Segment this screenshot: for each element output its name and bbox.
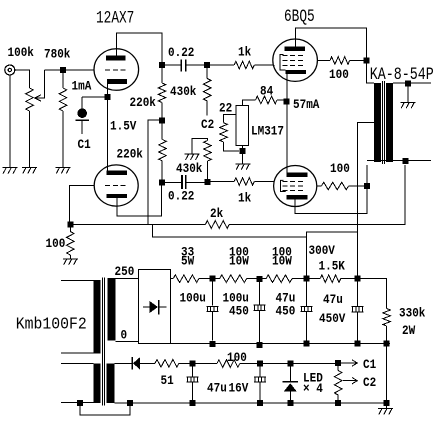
wire jog to 300V box [153,225,307,238]
node divider mid [159,118,165,124]
V1b grid lead [70,185,95,221]
resistor 33 5W [170,275,209,283]
V1a plate bar [106,55,126,60]
node J1 filter [210,276,216,282]
capacitor 0.22 top [165,60,204,72]
svg-text:84: 84 [260,84,273,99]
svg-text:LM317: LM317 [251,124,284,139]
triode V1a 12AX7 upper: envelope [94,49,139,91]
ground (780k) [56,168,71,174]
transformer T2 primary bar upper [94,280,101,353]
svg-text:450: 450 [229,304,249,319]
capacitor 47u 450V [352,282,364,341]
node bottom 0.22 left [159,179,165,185]
feedback wire with 2k to output [73,224,205,226]
V2 grid lead [273,65,274,67]
svg-text:100k: 100k [8,45,34,60]
capacitor 100u 450 [254,282,266,342]
resistor 2k [205,221,229,229]
svg-text:100: 100 [46,236,66,251]
svg-text:450V: 450V [319,311,346,326]
T2 bias winding top lead [115,362,133,364]
node feedback/grid junction [67,222,73,228]
ground (430k lower) [185,154,200,160]
resistor 100 (V3 screen) [317,182,364,190]
svg-text:430k: 430k [176,161,202,176]
node 780k top [60,67,66,73]
LM317 bottom lead [241,146,243,164]
node T2 bottom left [77,400,83,406]
T1 secondary winding bar [386,83,393,162]
resistor 84 [242,96,283,105]
resistor 220k upper [158,68,166,118]
node rail 5 [384,341,390,347]
svg-text:100: 100 [329,67,349,82]
resistor 51 [155,360,179,368]
svg-text:0.22: 0.22 [168,189,194,204]
svg-text:C1: C1 [78,137,91,152]
node top 0.22 left [159,62,165,68]
resistor 100 (V2 screen) [317,57,363,65]
node cathode/C1 junction [105,94,111,100]
resistor 1.5K [309,275,354,283]
T2 core lines [103,278,105,406]
resistor 780k [59,73,67,167]
node D bias out [335,360,341,366]
svg-text:47u: 47u [323,292,343,307]
svg-text:430k: 430k [170,84,196,99]
node T2 bottom right [127,400,133,406]
svg-text:C2: C2 [201,117,214,132]
node bottom 0.22 right [205,179,211,185]
V1a cathode bar [107,79,127,84]
svg-text:780k: 780k [44,47,70,62]
svg-text:100: 100 [330,161,350,176]
node B+ top [364,57,370,63]
svg-text:10W: 10W [229,254,249,269]
node transformer bottom [402,158,408,164]
node A bottom [189,400,195,406]
resistor 220k lower [159,124,167,180]
capacitor 0.22 bottom [165,175,205,189]
svg-text:220k: 220k [130,95,156,110]
wire 330k junction down to gnd rail [386,347,388,400]
capacitor 47u 16V [187,367,199,401]
node bottom gnd [384,400,390,406]
ground (jack) [2,75,17,174]
T2 secondary bar upper [108,278,116,341]
T1 primary top lead [367,63,375,83]
svg-text:47u: 47u [207,381,227,396]
LED string [282,366,298,400]
input jack J1 [5,65,15,75]
ground (secondary) [400,87,415,109]
svg-text:300V: 300V [309,243,336,258]
T2 heater lead top [61,363,94,365]
resistor 22 [220,115,239,152]
regulator U1 LM317 box [236,106,249,146]
V1a plate lead to top rail [116,33,162,62]
V3 bracket [281,180,286,191]
V3 cathode lead [295,165,367,213]
svg-text:250: 250 [115,264,135,279]
node rail 2 [257,342,263,348]
node C bias (LED) [288,360,294,366]
SRPP wire: V1a cathode to V1b plate [107,100,109,171]
resistor 430k lower (to gnd) [192,139,211,180]
V1a cathode lead [107,84,109,94]
svg-text:1.5V: 1.5V [110,119,137,134]
V1b cathode bar [107,194,128,198]
T1 core lines [383,81,385,164]
resistor 330k 2W [361,279,391,341]
svg-text:51: 51 [161,373,174,388]
svg-text:0: 0 [121,328,128,343]
wire wiper to grid [45,69,94,71]
T2 250V tap [116,278,139,280]
svg-text:12AX7: 12AX7 [96,8,134,29]
V2 cathode bar [286,70,306,74]
node LM317 bottom [239,148,245,154]
svg-text:1mA: 1mA [72,79,92,94]
resistor 1k bottom [211,178,275,186]
svg-text:5W: 5W [181,254,195,269]
node pot bottom [335,400,341,406]
resistor 100 10W #2 [263,275,304,283]
node LED bottom [288,400,294,406]
V1b cathode lead wire [117,186,162,217]
capacitor C6 bias [254,367,266,401]
svg-text:220k: 220k [117,147,143,162]
svg-text:1k: 1k [238,45,251,60]
node J4 (300V) [355,276,361,282]
node A bias [189,361,195,367]
V2 plate lead to B+ [296,28,367,58]
rectifier diode [143,300,167,315]
resistor 100 (V1b cathode bias gnd) [67,228,75,259]
T1 secondary top lead [393,82,431,84]
triode V1b 12AX7 lower: envelope [94,165,138,206]
wire junction to C1 terminal [82,96,105,98]
terminal C1 (net C1) [76,97,89,134]
T2 primary bar lower [94,363,101,403]
svg-text:330k: 330k [399,306,425,321]
svg-text:57mA: 57mA [293,97,320,112]
wire jack to pot top [15,70,30,88]
node B bias [257,361,263,367]
arrow to C1 [341,360,357,366]
bias bottom rail [133,402,384,404]
ground (100) [63,259,78,265]
svg-text:2W: 2W [402,323,416,338]
rectifier box [139,269,171,343]
V2 grid rows (g3,g2,g1) [283,56,304,66]
svg-text:22: 22 [219,101,232,116]
node output 57mA [284,99,290,105]
T2 bias winding bottom lead [115,402,188,404]
T1 primary mid tap lead [358,122,375,278]
pot wiper arrow [35,70,45,101]
node B+ / screen V3 [364,183,370,189]
node J2 filter [257,276,263,282]
svg-text:KA-8-54P: KA-8-54P [370,64,434,84]
V2 cathode lead to output node [286,74,288,173]
pentode V3 6BQ5 lower: envelope [274,166,317,207]
wire C to D [294,362,335,364]
V3 cathode bar [286,195,307,200]
T2 0V tap [115,341,138,343]
resistor 430k upper (to C2 net) [203,68,211,115]
wire mid tap to feedback line [148,120,159,225]
node J3 filter [303,276,309,282]
pentode V2 6BQ5 upper: envelope [273,39,318,81]
svg-text:× 4: × 4 [303,381,323,396]
wire mid-tap branch to J3 [306,232,357,276]
V2 plate bar [285,47,305,52]
capacitor 47u 450 [300,282,312,341]
svg-text:10W: 10W [272,254,292,269]
V1b grid dashes [105,184,127,186]
ground (pot) [22,168,37,174]
node rail 1 [210,341,216,347]
svg-text:100u: 100u [180,291,206,306]
svg-text:450: 450 [276,304,296,319]
potentiometer 100k [26,88,34,167]
svg-text:C1: C1 [363,357,376,372]
arrow to C2 [343,378,357,384]
capacitor 100u #1 [206,282,218,341]
resistor 100 (bias adj) [195,360,257,368]
svg-text:0.22: 0.22 [168,45,194,60]
node secondary gnd [405,81,411,87]
resistor 1k top [210,61,273,69]
node top 0.22 right [204,62,210,68]
T2 heater lead bottom [61,402,94,404]
svg-text:Kmb100F2: Kmb100F2 [16,315,87,334]
T1 bottom lead [367,160,431,162]
svg-text:1.5K: 1.5K [319,259,346,274]
svg-text:C2: C2 [363,375,376,390]
node rail 4 [355,341,361,347]
V3 grid rows [283,181,304,190]
V2 suppressor-cathode bracket [280,55,286,71]
V1b plate bar [107,171,128,175]
svg-text:1k: 1k [238,191,251,206]
ground (main PSU) [378,406,393,415]
transformer T1 primary winding bar [374,83,381,162]
wire 51 to node A [179,362,189,364]
diode D1 (bias) [132,357,155,370]
V1a grid dashes [105,69,127,71]
potentiometer bias (C2 tap) [334,366,342,400]
node B bottom [257,400,263,406]
ground (LM317) [235,164,250,170]
svg-text:2k: 2k [210,206,223,221]
T2 bottom strap [80,406,130,415]
T2 AC lead 1 [61,279,94,281]
B+ bottom rail [170,343,390,345]
resistor 100 10W #1 [216,275,257,283]
T2 secondary bar lower [107,363,115,403]
node rail 3 [303,341,309,347]
svg-text:16V: 16V [229,381,249,396]
wire 2k to transformer bottom [229,165,405,225]
V3 plate bar [286,173,307,178]
svg-text:100: 100 [227,350,247,365]
wire B to C [263,362,288,364]
T2 AC lead 2 [61,352,94,354]
svg-text:6BQ5: 6BQ5 [284,6,315,27]
